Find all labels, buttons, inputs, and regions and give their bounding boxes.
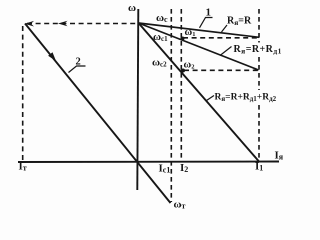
svg-text:ωт: ωт <box>174 199 186 211</box>
svg-text:ωc2: ωc2 <box>152 57 167 69</box>
svg-text:Rя=R+Rд1: Rя=R+Rд1 <box>234 44 282 56</box>
svg-text:Iя: Iя <box>275 150 284 162</box>
svg-text:ωc1: ωc1 <box>153 31 168 43</box>
svg-text:ω: ω <box>128 2 136 14</box>
svg-text:1: 1 <box>206 7 212 19</box>
svg-text:I2: I2 <box>180 162 188 174</box>
svg-text:ω1: ω1 <box>185 27 196 38</box>
svg-text:ωc: ωc <box>156 12 168 24</box>
svg-text:ω2: ω2 <box>184 60 195 71</box>
svg-text:2: 2 <box>76 56 81 67</box>
svg-text:Rя=R: Rя=R <box>227 15 252 27</box>
svg-text:Rя=R+Rд1+Rд2: Rя=R+Rд1+Rд2 <box>215 93 277 104</box>
svg-text:Ic1: Ic1 <box>159 163 171 175</box>
